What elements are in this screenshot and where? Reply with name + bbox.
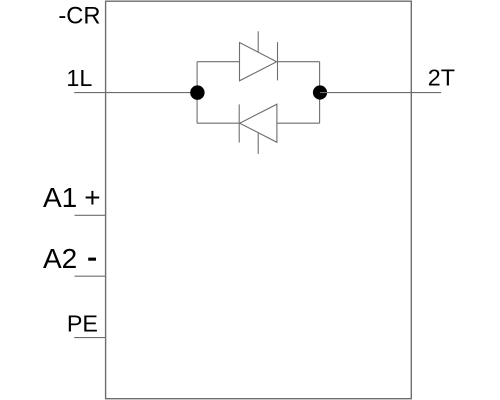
- thyristor V1 gate: [257, 31, 259, 52]
- wire right riser: [319, 62, 321, 123]
- svg-text:PE: PE: [67, 311, 98, 337]
- wire top branch left: [197, 61, 240, 63]
- wire stub PE: [74, 337, 105, 339]
- wire stub A2: [75, 275, 106, 277]
- device outline (relay body): [106, 1, 412, 399]
- thyristor V1 triangle: [240, 43, 277, 81]
- svg-text:-CR: -CR: [58, 4, 100, 30]
- wire bottom branch left: [197, 122, 239, 124]
- svg-text:2T: 2T: [428, 64, 455, 90]
- wire left riser: [196, 62, 198, 123]
- thyristor V2 gate: [257, 133, 259, 154]
- svg-text:1L: 1L: [66, 65, 92, 91]
- thyristor V2 triangle: [240, 104, 277, 142]
- wire stub A1: [75, 214, 106, 216]
- svg-text:A2: A2: [43, 243, 77, 274]
- thyristor V2 cathode bar: [238, 104, 240, 142]
- node right junction: [313, 85, 327, 99]
- wire 2T output: [320, 92, 441, 94]
- wire 1L input: [74, 92, 197, 94]
- svg-text:+: +: [84, 182, 100, 213]
- wire top branch right: [278, 61, 320, 63]
- svg-text:A1: A1: [43, 182, 77, 213]
- node left junction: [190, 85, 204, 99]
- wire bottom branch right: [277, 122, 320, 124]
- thyristor V1 cathode bar: [277, 42, 279, 80]
